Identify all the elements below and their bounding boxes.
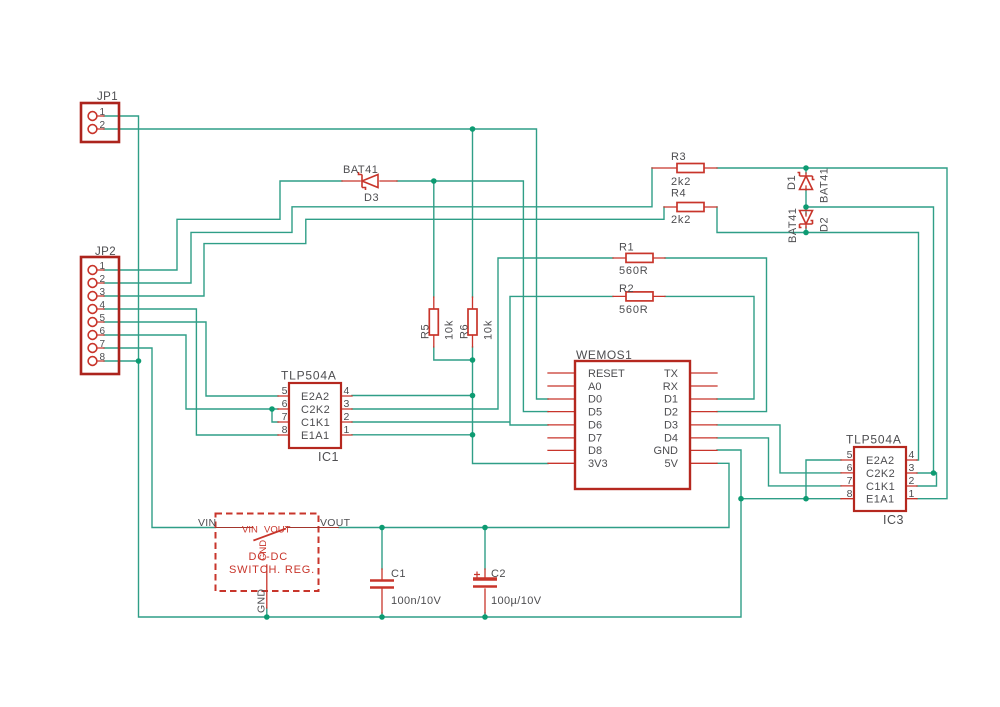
svg-text:TLP504A: TLP504A xyxy=(846,433,902,447)
svg-text:7: 7 xyxy=(282,411,288,423)
svg-text:3V3: 3V3 xyxy=(588,458,608,470)
svg-text:VOUT: VOUT xyxy=(264,525,291,536)
svg-text:1: 1 xyxy=(344,424,350,436)
svg-text:A0: A0 xyxy=(588,381,601,393)
svg-text:5V: 5V xyxy=(665,458,679,470)
svg-text:D2: D2 xyxy=(664,407,678,419)
svg-text:100n/10V: 100n/10V xyxy=(391,595,442,607)
svg-text:3: 3 xyxy=(344,398,350,410)
svg-text:560R: 560R xyxy=(619,265,649,277)
svg-text:GND: GND xyxy=(256,589,268,613)
svg-text:RESET: RESET xyxy=(588,368,625,380)
svg-text:1: 1 xyxy=(100,261,106,272)
svg-text:R5: R5 xyxy=(420,324,432,339)
svg-text:3: 3 xyxy=(100,287,106,298)
svg-text:100µ/10V: 100µ/10V xyxy=(491,595,542,607)
svg-text:1: 1 xyxy=(100,107,106,118)
svg-text:RX: RX xyxy=(663,381,679,393)
svg-text:E2A2: E2A2 xyxy=(866,455,895,467)
svg-text:2: 2 xyxy=(100,120,106,131)
svg-text:D4: D4 xyxy=(664,433,678,445)
svg-text:4: 4 xyxy=(909,449,915,461)
svg-text:GND: GND xyxy=(654,445,679,457)
svg-text:E2A2: E2A2 xyxy=(301,391,330,403)
svg-text:D2: D2 xyxy=(819,217,831,232)
svg-text:C2K2: C2K2 xyxy=(301,404,330,416)
svg-text:10k: 10k xyxy=(444,320,456,340)
svg-text:6: 6 xyxy=(100,326,106,337)
svg-text:WEMOS1: WEMOS1 xyxy=(576,348,632,362)
svg-text:D6: D6 xyxy=(588,420,602,432)
svg-text:D3: D3 xyxy=(364,192,379,204)
svg-text:2: 2 xyxy=(100,274,106,285)
svg-text:JP2: JP2 xyxy=(95,246,116,258)
svg-text:R4: R4 xyxy=(671,188,686,200)
svg-text:560R: 560R xyxy=(619,304,649,316)
svg-text:8: 8 xyxy=(282,424,288,436)
svg-text:D3: D3 xyxy=(664,420,678,432)
svg-text:D1: D1 xyxy=(786,175,798,190)
svg-text:C1K1: C1K1 xyxy=(866,481,895,493)
svg-text:R6: R6 xyxy=(459,324,471,339)
svg-text:JP1: JP1 xyxy=(97,91,118,103)
svg-text:D5: D5 xyxy=(588,407,602,419)
svg-text:2: 2 xyxy=(909,475,915,487)
svg-text:5: 5 xyxy=(100,313,106,324)
svg-text:VOUT: VOUT xyxy=(320,517,351,529)
svg-text:DC-DC: DC-DC xyxy=(249,551,288,563)
svg-text:2k2: 2k2 xyxy=(671,176,691,188)
svg-text:BAT41: BAT41 xyxy=(819,168,831,203)
svg-text:1: 1 xyxy=(909,488,915,500)
svg-text:C1: C1 xyxy=(391,568,406,580)
svg-text:C1K1: C1K1 xyxy=(301,417,330,429)
svg-text:2: 2 xyxy=(344,411,350,423)
svg-text:BAT41: BAT41 xyxy=(343,164,378,176)
svg-text:BAT41: BAT41 xyxy=(787,208,799,243)
svg-text:10k: 10k xyxy=(483,320,495,340)
svg-text:5: 5 xyxy=(847,449,853,461)
svg-text:6: 6 xyxy=(847,462,853,474)
svg-text:E1A1: E1A1 xyxy=(866,494,895,506)
svg-text:D8: D8 xyxy=(588,445,602,457)
svg-text:VIN: VIN xyxy=(242,525,258,536)
svg-text:D7: D7 xyxy=(588,433,602,445)
svg-text:C2K2: C2K2 xyxy=(866,468,895,480)
svg-text:TX: TX xyxy=(664,368,679,380)
svg-text:R2: R2 xyxy=(619,283,634,295)
svg-text:VIN: VIN xyxy=(198,517,216,529)
svg-text:8: 8 xyxy=(100,352,106,363)
svg-text:6: 6 xyxy=(282,398,288,410)
svg-text:3: 3 xyxy=(909,462,915,474)
svg-text:7: 7 xyxy=(847,475,853,487)
svg-text:R1: R1 xyxy=(619,242,634,254)
svg-text:IC3: IC3 xyxy=(883,513,904,527)
svg-text:SWITCH. REG.: SWITCH. REG. xyxy=(229,564,315,576)
svg-text:D0: D0 xyxy=(588,394,602,406)
svg-text:C2: C2 xyxy=(491,568,506,580)
svg-text:8: 8 xyxy=(847,488,853,500)
svg-text:5: 5 xyxy=(282,385,288,397)
svg-text:R3: R3 xyxy=(671,151,686,163)
svg-text:E1A1: E1A1 xyxy=(301,430,330,442)
svg-text:2k2: 2k2 xyxy=(671,214,691,226)
svg-text:D1: D1 xyxy=(664,394,678,406)
svg-text:4: 4 xyxy=(100,300,106,311)
svg-text:4: 4 xyxy=(344,385,350,397)
svg-text:TLP504A: TLP504A xyxy=(281,369,337,383)
svg-text:IC1: IC1 xyxy=(318,450,339,464)
svg-text:7: 7 xyxy=(100,339,106,350)
